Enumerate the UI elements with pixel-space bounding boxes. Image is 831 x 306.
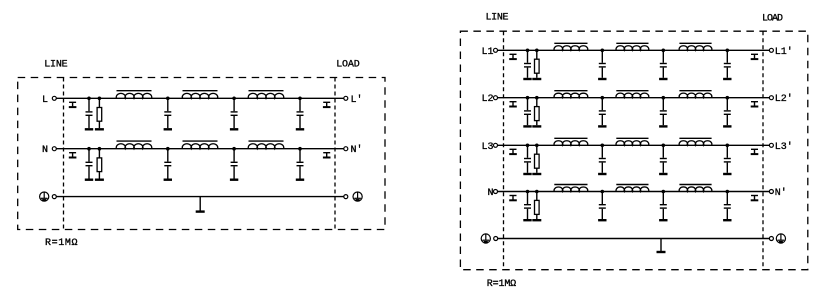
svg-text:L': L' [351, 94, 363, 106]
svg-text:N: N [42, 145, 48, 156]
svg-text:N': N' [775, 187, 787, 199]
svg-text:L2': L2' [775, 93, 793, 105]
svg-text:R=1MΩ: R=1MΩ [487, 279, 517, 290]
svg-text:N: N [487, 188, 493, 199]
svg-text:R=1MΩ: R=1MΩ [45, 238, 78, 249]
svg-text:LINE: LINE [44, 60, 67, 71]
svg-text:LOAD: LOAD [762, 13, 783, 24]
svg-text:L2: L2 [481, 94, 493, 105]
svg-text:LINE: LINE [486, 13, 509, 24]
svg-text:L3': L3' [775, 141, 793, 153]
svg-text:L: L [42, 95, 48, 106]
svg-text:L3: L3 [481, 142, 493, 153]
svg-text:L1': L1' [775, 46, 793, 58]
svg-text:L1: L1 [481, 47, 493, 58]
svg-text:LOAD: LOAD [336, 59, 360, 70]
svg-text:N': N' [351, 144, 363, 156]
